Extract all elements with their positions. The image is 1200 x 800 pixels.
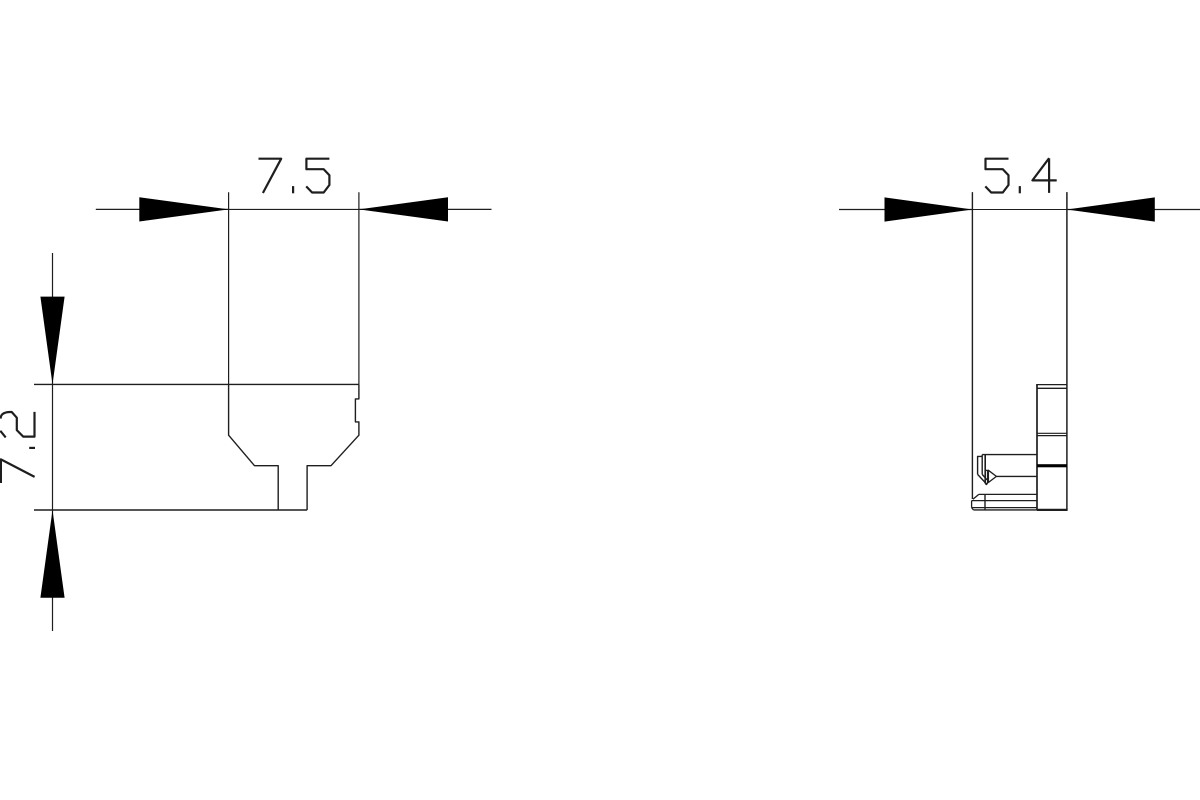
dimension line 7.2: [52, 253, 54, 631]
arrow 7.5 left: [139, 197, 228, 221]
clip hook outline: [978, 455, 983, 475]
part right view: inner box left edge: [1036, 384, 1038, 510]
part right view: box top line 2: [1037, 387, 1067, 389]
part right view: thick contact band: [1037, 464, 1067, 467]
dimension text 7.2 rotated: [0, 412, 35, 483]
contact bar bottom tip: [985, 483, 988, 485]
part outline left view: right slot wall: [307, 384, 359, 510]
dimension text 5.4: [985, 158, 1056, 193]
arrow 5.4 left: [885, 197, 973, 221]
part right view: box mid line 2: [1037, 435, 1067, 437]
contact bar right edge: [987, 470, 989, 483]
clip arm top line: [982, 454, 1037, 456]
arrow 7.2 top: [40, 297, 64, 385]
bottom block line y507: [972, 507, 1037, 509]
part right view: left edge / extension line: [971, 192, 973, 499]
arrow 7.2 bottom: [40, 510, 64, 598]
extension line 7.5 left: [228, 192, 230, 384]
bottom block line y494: [979, 493, 1037, 495]
part outline left view: left slot wall: [229, 384, 279, 510]
contact bar left edge: [984, 455, 986, 484]
clip arm bottom line: [996, 475, 1037, 477]
part right view: bottom edge left portion: [973, 509, 1037, 511]
contact bar top step: [985, 469, 988, 471]
extension line 7.5 right: [358, 192, 360, 384]
part right view: box mid line 1: [1037, 432, 1067, 434]
arrow 5.4 right: [1067, 197, 1155, 221]
bottom block line y500: [972, 500, 1037, 502]
part outline left view: top edge: [34, 383, 359, 385]
clip hook bend diagonal outer: [978, 474, 987, 483]
arrow 7.5 right: [359, 197, 448, 221]
part right view: bottom edge right portion (thick): [1037, 509, 1068, 511]
part right view: right edge / extension line: [1066, 192, 1068, 510]
dimension line 5.4 middle segment: [972, 209, 1067, 211]
bottom block inner vertical: [984, 494, 986, 510]
bottom block chamfer diagonal: [973, 494, 979, 499]
dimension line 7.5 left segment: [96, 208, 229, 210]
part outline left view: bottom edge: [34, 509, 307, 511]
bottom block lower chamfer: [972, 508, 974, 510]
dimension line 7.5 right segment: [359, 208, 492, 210]
dimension line 5.4 left segment: [839, 209, 972, 211]
dimension line 5.4 right segment: [1067, 209, 1200, 211]
clip hook bend diagonal inner: [982, 474, 987, 479]
bottom block left edge: [971, 501, 973, 508]
contact arrowhead triangle: [988, 470, 996, 482]
part right view: box top line 1: [1036, 384, 1067, 386]
dimension line 7.5 middle segment: [229, 208, 359, 210]
dimension text 7.5: [259, 159, 330, 194]
